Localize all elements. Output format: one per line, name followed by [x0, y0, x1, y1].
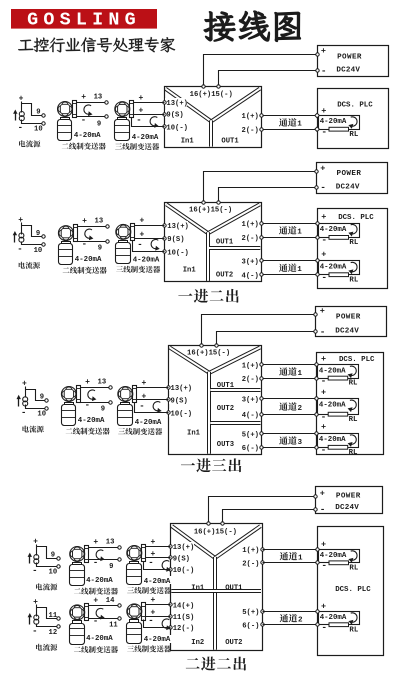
svg-text:DCS. PLC: DCS. PLC	[338, 214, 374, 222]
loop - terminal	[315, 127, 320, 132]
svg-text:+: +	[19, 94, 24, 103]
loop - terminal	[315, 377, 318, 380]
transmitter neck	[130, 562, 139, 564]
svg-text:-: -	[148, 616, 153, 626]
transmitter neck	[119, 241, 128, 243]
transmitter head	[58, 102, 73, 117]
svg-text:9(S): 9(S)	[166, 112, 183, 120]
svg-text:-: -	[321, 560, 327, 571]
wire + to terminal 1	[134, 102, 165, 104]
wire + channel 2	[263, 611, 318, 613]
current source arrow	[18, 398, 20, 407]
label dianlıuyuan	[36, 644, 42, 651]
load resistor RL	[329, 236, 349, 240]
label 4-20mA	[143, 576, 173, 584]
terminal 1(+)	[242, 545, 261, 554]
svg-text:9: 9	[40, 394, 44, 402]
terminal 9(S)	[169, 396, 186, 404]
wire + to terminal 1	[146, 604, 171, 606]
wire 15(-) to POWER -	[217, 332, 316, 345]
label 4-20mA	[74, 255, 104, 263]
svg-text:+: +	[321, 422, 326, 432]
label 4-20mA	[132, 255, 162, 263]
wire + to terminal 1	[135, 225, 165, 227]
svg-text:-: -	[136, 116, 141, 126]
svg-text:+: +	[142, 392, 147, 401]
load resistor RL	[328, 376, 348, 380]
transmitter body	[70, 624, 85, 645]
loop + terminal	[315, 432, 318, 435]
wire + to terminal 2	[135, 238, 165, 240]
current source symbol	[36, 545, 38, 556]
svg-text:POWER: POWER	[337, 170, 362, 178]
svg-text:DCS. PLC: DCS. PLC	[339, 356, 375, 364]
4-20mA receiver loop box	[319, 224, 360, 238]
svg-text:+: +	[151, 538, 156, 547]
channel label 通道1	[279, 264, 288, 272]
svg-text:+: +	[139, 106, 144, 115]
wire + to terminal 1	[137, 387, 169, 389]
terminal 9	[57, 557, 60, 560]
svg-text:2(-): 2(-)	[242, 376, 259, 384]
svg-text:16(+)15(-): 16(+)15(-)	[194, 528, 237, 536]
wire + to terminal 2	[146, 557, 171, 559]
isolator box outline	[169, 346, 262, 455]
svg-text:-: -	[21, 408, 26, 418]
label 16(+)15(-)	[189, 205, 233, 212]
svg-text:-: -	[148, 558, 153, 568]
terminal 16(+)	[202, 85, 205, 88]
svg-text:10(-): 10(-)	[171, 411, 193, 419]
transmitter terminal block	[142, 545, 146, 562]
wire + to terminal 2	[146, 616, 171, 618]
loop + terminal	[315, 397, 318, 400]
terminal 13	[105, 101, 108, 104]
svg-text:4-20mA: 4-20mA	[144, 578, 171, 586]
4-20mA receiver loop box	[318, 399, 359, 415]
svg-text:+: +	[33, 537, 38, 546]
loop direction arrow	[350, 400, 356, 409]
transmitter body	[62, 405, 76, 426]
loop + terminal	[315, 113, 320, 118]
svg-text:+: +	[321, 601, 326, 611]
svg-text:10: 10	[37, 411, 46, 419]
svg-text:4-20mA: 4-20mA	[86, 577, 113, 585]
svg-text:10: 10	[34, 247, 43, 255]
svg-text:RL: RL	[349, 239, 358, 247]
svg-text:13(+): 13(+)	[171, 385, 193, 393]
isolator Y divider	[166, 89, 212, 122]
svg-text:-: -	[93, 558, 98, 568]
load resistor RL	[329, 623, 349, 627]
load resistor RL	[328, 445, 348, 449]
loop + terminal	[316, 610, 319, 613]
4-20mA receiver loop box	[319, 612, 360, 625]
terminal 14	[118, 604, 121, 607]
svg-text:POWER: POWER	[336, 492, 361, 500]
current source symbol	[36, 605, 38, 617]
svg-text:RL: RL	[349, 564, 358, 572]
wire + to terminal 13	[81, 387, 111, 389]
channel label 通道2	[280, 614, 289, 622]
current loop arrow	[153, 402, 160, 411]
svg-text:-: -	[321, 272, 327, 283]
loop + terminal	[316, 222, 319, 225]
terminal 13	[118, 546, 121, 549]
transmitter terminal block	[131, 224, 135, 241]
POWER + terminal	[314, 313, 317, 316]
svg-text:9: 9	[98, 245, 102, 253]
wire 15(-) to POWER -	[223, 510, 316, 523]
terminal 11	[57, 617, 60, 620]
transmitter neck	[73, 621, 82, 624]
svg-text:6(-): 6(-)	[242, 622, 259, 630]
current source symbol	[25, 387, 27, 398]
loop + terminal	[315, 363, 318, 366]
transmitter body	[59, 244, 73, 265]
terminal 9	[109, 401, 112, 404]
4-20mA receiver loop box	[318, 365, 359, 379]
terminal 5(+)	[242, 607, 261, 616]
transmitter terminal block	[77, 386, 81, 403]
wire - channel 1	[263, 129, 318, 131]
load resistor RL	[329, 561, 349, 565]
svg-text:9: 9	[36, 230, 40, 238]
transmitter body	[70, 565, 85, 586]
load resistor RL	[328, 412, 348, 416]
terminal 10(-)	[172, 565, 194, 573]
svg-text:13: 13	[94, 94, 103, 102]
svg-text:+: +	[18, 216, 23, 225]
transmitter terminal block	[130, 101, 134, 118]
transmitter neck	[121, 403, 130, 405]
svg-text:2(-): 2(-)	[242, 127, 259, 135]
current source arrow	[29, 616, 31, 625]
svg-text:16(+)15(-): 16(+)15(-)	[189, 207, 232, 215]
terminal 10(-)	[169, 409, 191, 417]
terminal 11	[118, 617, 121, 620]
svg-text:4-20mA: 4-20mA	[320, 226, 347, 234]
svg-text:DCS. PLC: DCS. PLC	[335, 586, 371, 594]
svg-text:+: +	[321, 387, 326, 397]
transmitter head	[127, 604, 142, 619]
svg-text:+: +	[93, 596, 98, 605]
svg-text:DC24V: DC24V	[336, 184, 360, 192]
channel label 通道1	[279, 226, 288, 234]
transmitter head	[115, 102, 130, 117]
terminal 11(S)	[172, 612, 194, 620]
svg-text:-: -	[321, 445, 327, 456]
svg-text:-: -	[320, 504, 326, 515]
terminal 1(+)	[241, 111, 260, 120]
label 16(+)15(-)	[193, 527, 237, 534]
channel label 通道1	[279, 367, 288, 375]
wire - channel 2	[263, 414, 317, 416]
svg-text:POWER: POWER	[337, 53, 362, 61]
label dianlıuyuan	[19, 262, 25, 269]
DCS PLC box	[318, 527, 384, 656]
svg-text:DCS. PLC: DCS. PLC	[337, 101, 373, 109]
label three-wire transmitter	[115, 143, 122, 149]
terminal 10	[42, 122, 45, 125]
wire + to terminal 13	[78, 226, 108, 228]
caption one-in two-out	[178, 293, 192, 295]
svg-text:16(+)15(-): 16(+)15(-)	[190, 91, 233, 99]
DCS PLC box	[318, 209, 388, 289]
wire 15(-) to POWER -	[219, 71, 318, 86]
wire + channel 1	[263, 364, 317, 366]
svg-text:10(-): 10(-)	[166, 125, 188, 133]
wire - to terminal 9	[77, 116, 107, 118]
svg-text:-: -	[321, 412, 327, 423]
transmitter terminal block	[142, 603, 146, 621]
terminal 15(-)	[217, 201, 220, 204]
POWER + terminal	[314, 495, 317, 498]
svg-text:+: +	[151, 596, 156, 605]
svg-text:1(+): 1(+)	[242, 363, 259, 371]
terminal 10(-)	[165, 123, 187, 131]
transmitter body	[127, 564, 142, 585]
channel label 通道1	[280, 552, 289, 560]
svg-text:+: +	[142, 379, 147, 388]
loop direction arrow	[351, 117, 357, 126]
transmitter neck	[62, 242, 71, 244]
terminal 10	[45, 407, 48, 410]
wire 16(+) to POWER +	[204, 55, 318, 86]
transmitter neck	[65, 403, 74, 405]
terminal 14(+)	[172, 600, 194, 608]
svg-text:12(-): 12(-)	[173, 625, 195, 633]
svg-text:+: +	[33, 598, 38, 607]
svg-text:+: +	[320, 488, 325, 498]
svg-text:OUT2: OUT2	[216, 272, 233, 280]
svg-text:4-20mA: 4-20mA	[320, 614, 347, 622]
label 4-20mA	[134, 417, 164, 425]
svg-text:OUT2: OUT2	[225, 639, 242, 647]
svg-text:4-20mA: 4-20mA	[78, 417, 105, 425]
load resistor RL	[329, 273, 349, 277]
POWER supply box	[317, 163, 388, 194]
slogan text	[18, 40, 33, 51]
transmitter terminal block	[74, 225, 78, 242]
loop - terminal	[316, 273, 319, 276]
terminal 9	[42, 114, 45, 117]
svg-text:In2: In2	[191, 639, 204, 647]
svg-text:1: 1	[298, 370, 303, 378]
terminal 15(-)	[217, 85, 220, 88]
terminal 12	[57, 625, 60, 628]
wire 16(+) to POWER +	[204, 172, 317, 202]
svg-text:-: -	[82, 240, 87, 250]
loop direction arrow	[351, 225, 357, 234]
current source symbol	[21, 102, 23, 113]
POWER supply box	[316, 307, 387, 337]
transmitter neck	[61, 118, 70, 120]
current source arrow	[14, 234, 16, 243]
isolator Y divider	[170, 348, 210, 373]
terminal 10	[42, 243, 45, 246]
wire + channel 1	[263, 260, 318, 262]
transmitter head	[118, 387, 133, 402]
svg-text:3(+): 3(+)	[242, 259, 259, 267]
svg-text:4(-): 4(-)	[242, 412, 259, 420]
svg-text:4-20mA: 4-20mA	[319, 367, 346, 375]
isolator Y divider	[166, 204, 208, 233]
channel label 通道2	[279, 402, 288, 410]
loop direction arrow	[351, 262, 357, 271]
current loop arrow	[96, 550, 103, 559]
svg-text:10(-): 10(-)	[167, 249, 189, 257]
svg-text:9: 9	[36, 108, 40, 116]
svg-text:DC24V: DC24V	[335, 327, 359, 335]
terminal 9	[105, 115, 108, 118]
svg-text:-: -	[81, 115, 86, 125]
4-20mA receiver loop box	[319, 116, 360, 130]
transmitter body	[118, 405, 133, 426]
transmitter head	[70, 605, 85, 620]
current source arrow	[29, 555, 31, 564]
svg-text:+: +	[321, 212, 326, 222]
transmitter head	[127, 546, 142, 561]
svg-text:4(-): 4(-)	[242, 272, 259, 280]
wire + channel 1	[263, 223, 318, 225]
svg-text:6(-): 6(-)	[242, 445, 259, 453]
caption one-in three-out	[181, 463, 195, 465]
svg-text:1(+): 1(+)	[242, 113, 259, 121]
terminal 2(-)	[241, 233, 260, 242]
terminal 5(+)	[241, 429, 260, 438]
label three-wire transmitter	[118, 428, 125, 434]
svg-text:+: +	[321, 46, 326, 56]
wire - to terminal 3	[135, 403, 169, 413]
label two-wire transmitter	[62, 143, 69, 148]
terminal 3(+)	[241, 257, 260, 266]
loop direction arrow	[351, 613, 357, 622]
transmitter head	[58, 226, 73, 241]
label dianlıuyuan	[36, 583, 42, 590]
svg-text:9: 9	[109, 563, 113, 571]
isolator box outline	[165, 203, 262, 282]
terminal 13	[109, 386, 112, 389]
channel label 通道3	[279, 436, 288, 444]
4-20mA receiver loop box	[318, 434, 359, 448]
terminal 13	[106, 225, 109, 228]
svg-text:RL: RL	[349, 449, 358, 457]
terminal 1(+)	[241, 219, 260, 228]
svg-text:3: 3	[298, 439, 303, 447]
svg-text:OUT1: OUT1	[225, 584, 243, 592]
svg-text:14: 14	[106, 597, 115, 605]
transmitter head	[61, 387, 76, 402]
loop direction arrow	[350, 366, 356, 375]
wire + channel 2	[263, 398, 317, 400]
DCS PLC box	[318, 89, 389, 149]
current loop arrow	[150, 117, 157, 126]
svg-text:1(+): 1(+)	[242, 221, 259, 229]
svg-text:2: 2	[298, 616, 303, 624]
terminal 15(-)	[221, 522, 224, 525]
svg-text:14(+): 14(+)	[173, 602, 195, 610]
svg-text:-: -	[93, 616, 98, 626]
wire - to terminal 3	[133, 241, 165, 252]
transmitter terminal block	[133, 386, 137, 403]
loop direction arrow	[350, 435, 356, 444]
wire 16(+) to POWER +	[209, 497, 316, 523]
POWER - terminal	[314, 330, 317, 333]
wire 15(-) to POWER -	[219, 188, 317, 202]
current loop arrow	[162, 561, 169, 570]
terminal 15(-)	[215, 344, 218, 347]
load resistor RL	[329, 127, 349, 131]
wire - to terminal 9	[78, 241, 108, 243]
terminal 13(+)	[172, 542, 194, 550]
svg-text:DC24V: DC24V	[335, 504, 359, 512]
svg-text:2(-): 2(-)	[242, 235, 259, 243]
wire - channel 1	[263, 562, 318, 564]
wire + channel 1	[263, 549, 318, 551]
wire + to terminal 14	[89, 605, 120, 607]
svg-text:-: -	[137, 240, 142, 250]
svg-text:GOSLING: GOSLING	[27, 10, 141, 31]
POWER + terminal	[316, 53, 319, 56]
svg-text:+: +	[139, 94, 144, 103]
svg-text:9(S): 9(S)	[173, 555, 190, 563]
terminal 16(+)	[207, 522, 210, 525]
wire - to terminal 3	[144, 562, 171, 570]
label three-wire transmitter	[127, 646, 134, 652]
svg-text:-: -	[18, 123, 23, 133]
current loop arrow	[84, 105, 91, 114]
svg-text:4-20mA: 4-20mA	[132, 134, 159, 142]
svg-text:RL: RL	[349, 626, 358, 634]
terminal 4(-)	[241, 270, 260, 279]
4-20mA receiver loop box	[319, 550, 360, 563]
svg-text:+: +	[320, 164, 325, 174]
isolator input/output divider	[171, 589, 261, 593]
svg-text:OUT1: OUT1	[216, 239, 234, 247]
svg-text:4-20mA: 4-20mA	[319, 401, 346, 409]
wire - to terminal 3	[144, 620, 171, 628]
svg-text:-: -	[321, 375, 327, 386]
terminal 3(+)	[241, 394, 260, 403]
svg-text:+: +	[321, 539, 326, 549]
label 4-20mA	[77, 416, 107, 424]
svg-text:+: +	[22, 380, 27, 389]
svg-text:In1: In1	[183, 267, 197, 275]
loop - terminal	[316, 236, 319, 239]
transmitter neck	[118, 118, 127, 120]
label dianlıuyuan	[22, 426, 28, 433]
terminal 16(+)	[200, 344, 203, 347]
svg-text:1: 1	[297, 121, 302, 129]
terminal 2(-)	[242, 558, 261, 567]
svg-text:+: +	[81, 93, 86, 102]
transmitter head	[116, 224, 131, 239]
svg-text:+: +	[140, 217, 145, 226]
wire - channel 2	[263, 624, 318, 626]
terminal 9(S)	[166, 234, 183, 242]
terminal 9	[106, 240, 109, 243]
wire - channel 3	[263, 447, 317, 449]
label 4-20mA	[143, 635, 173, 643]
svg-text:RL: RL	[349, 380, 358, 388]
transmitter terminal block	[85, 546, 89, 563]
svg-text:RL: RL	[349, 131, 358, 139]
wire - to terminal 3	[132, 118, 165, 127]
svg-text:9: 9	[51, 551, 55, 559]
svg-text:4-20mA: 4-20mA	[320, 264, 347, 272]
svg-text:4-20mA: 4-20mA	[144, 636, 171, 644]
